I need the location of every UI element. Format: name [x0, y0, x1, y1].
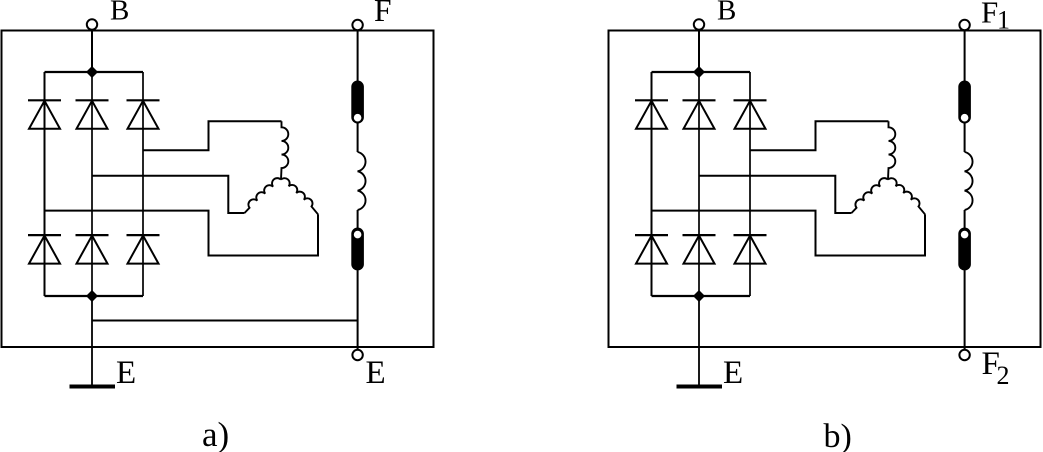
ground symbol E (b)	[677, 385, 723, 389]
lower brush (b)	[958, 228, 971, 271]
ground symbol E (a)	[70, 385, 116, 389]
slip ring 1 (b)	[960, 113, 970, 123]
field winding LF (a)	[358, 152, 366, 210]
stator winding L2 (a)	[245, 178, 282, 213]
wire: negative bus (b)	[652, 295, 751, 297]
svg-text:B: B	[717, 0, 736, 27]
diode VD8 (b)	[683, 100, 716, 129]
terminal F1 (b)	[959, 20, 969, 30]
stator winding L1 (b)	[888, 121, 895, 179]
diode VD10 (b)	[635, 235, 668, 264]
wire: field coil to slip ring 2 (a)	[357, 210, 359, 230]
diode VD1 (a)	[28, 100, 61, 129]
wire: rectifier column 1 (b)	[651, 72, 653, 296]
stator winding L1 (a)	[281, 121, 288, 179]
slip ring 2 (b)	[960, 230, 970, 240]
terminal F (a)	[352, 20, 362, 30]
wire: positive bus (a)	[45, 71, 144, 73]
wire: negative bus to ground (a)	[91, 296, 93, 387]
wire: F terminal to upper brush (b)	[964, 30, 966, 81]
wire: rectifier column 1 (a)	[44, 72, 46, 296]
diode VD11 (b)	[683, 235, 716, 264]
svg-text:E: E	[366, 355, 386, 391]
svg-text:E: E	[116, 355, 136, 391]
svg-text:b): b)	[824, 418, 852, 452]
wire: rectifier column 3 (a)	[142, 72, 144, 296]
stator winding L3 (b)	[888, 178, 925, 214]
stator winding L2 (b)	[852, 178, 889, 213]
svg-text:a): a)	[202, 415, 229, 452]
wire: phase 3 from column 1 to stator coil L3 (a)	[45, 211, 319, 256]
wire: field coil to slip ring 2 (b)	[964, 210, 966, 230]
diode VD12 (b)	[734, 235, 767, 264]
svg-text:2: 2	[997, 361, 1010, 390]
wire: phase 3 from column 1 to stator coil L3 (b)	[652, 211, 926, 256]
wire: F terminal to upper brush (a)	[357, 30, 359, 81]
wire: phase 2 from column 2 to stator coil L2 (a)	[92, 176, 245, 213]
wire B terminal to positive bus (b)	[698, 30, 700, 72]
wire: negative bus to ground (b)	[698, 296, 700, 387]
diode VD2 (a)	[76, 100, 109, 129]
wire: lower brush to E terminal (a)	[357, 271, 359, 351]
diode VD5 (a)	[76, 235, 109, 264]
lower brush (a)	[351, 228, 364, 271]
wire: negative bus (a)	[45, 295, 144, 297]
alternator housing box (a)	[2, 31, 434, 348]
diode VD7 (b)	[635, 100, 668, 129]
diode VD4 (a)	[28, 235, 61, 264]
node: positive bus junction (b)	[693, 66, 705, 78]
wire: positive bus (b)	[652, 71, 751, 73]
wire: phase 1 from column 3 to stator coil L1 (b)	[750, 121, 889, 150]
slip ring 1 (a)	[353, 113, 363, 123]
svg-text:F: F	[981, 0, 998, 30]
svg-text:E: E	[723, 355, 743, 391]
terminal F2 (b)	[959, 350, 969, 360]
wire: slip ring 1 to field coil (a)	[357, 123, 359, 153]
terminal B (a)	[87, 19, 97, 29]
wire: rectifier column 3 (b)	[749, 72, 751, 296]
svg-text:1: 1	[997, 6, 1010, 35]
wire: phase 1 from column 3 to stator coil L1 (a)	[143, 121, 282, 150]
stator winding L3 (a)	[281, 178, 318, 214]
wire B terminal to positive bus (a)	[91, 30, 93, 72]
wire: phase 2 from column 2 to stator coil L2 (b)	[699, 176, 852, 213]
diode VD6 (a)	[127, 235, 160, 264]
node: negative bus junction (a)	[86, 290, 98, 302]
wire: rectifier column 2 (a)	[91, 72, 93, 296]
svg-text:B: B	[110, 0, 129, 27]
diode VD9 (b)	[734, 100, 767, 129]
label F1 (b)	[981, 0, 1010, 35]
label F2 (b)	[982, 346, 1010, 390]
node: positive bus junction (a)	[86, 66, 98, 78]
wire: rectifier column 2 (b)	[698, 72, 700, 296]
upper brush (b)	[958, 81, 971, 124]
field winding LF (b)	[965, 152, 973, 210]
wire: negative bus tap to field (a)	[92, 320, 358, 322]
svg-text:F: F	[374, 0, 392, 28]
upper brush (a)	[351, 81, 364, 124]
alternator housing box (b)	[609, 31, 1041, 348]
terminal E right (a)	[352, 350, 362, 360]
terminal B (b)	[694, 19, 704, 29]
diode VD3 (a)	[127, 100, 160, 129]
slip ring 2 (a)	[353, 230, 363, 240]
node: negative bus junction (b)	[693, 290, 705, 302]
wire: slip ring 1 to field coil (b)	[964, 123, 966, 153]
wire: lower brush to F2 terminal (b)	[964, 271, 966, 351]
